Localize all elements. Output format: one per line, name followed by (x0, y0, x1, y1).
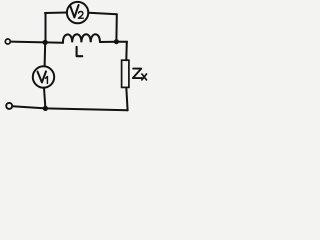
wire main horizontal right (100, 41, 127, 43)
terminal bottom-left (6, 103, 12, 109)
wire bottom rail (12, 106, 127, 110)
wire V1 branch lower (44, 88, 45, 109)
wire V2 loop right vertical (115, 14, 117, 42)
wire V2 loop left vertical (45, 13, 47, 42)
voltmeter V1 (33, 66, 54, 87)
label Zx subscript (142, 74, 147, 80)
label L (77, 47, 83, 56)
node junction B (114, 39, 119, 44)
inductor L (63, 34, 100, 43)
terminal top-left (5, 39, 10, 44)
label V2 (70, 5, 79, 17)
wire Zx branch down to box (125, 42, 128, 60)
label Zx (133, 69, 142, 79)
wire Zx box to bottom rail (126, 88, 127, 111)
wire top rail left (45, 12, 67, 15)
node junction A (43, 40, 48, 45)
wire top rail right (89, 13, 117, 14)
label V1 (38, 71, 47, 82)
impedance Zx box (122, 60, 129, 87)
voltmeter V2 (67, 2, 88, 23)
wire V1 branch upper (44, 42, 47, 66)
wire main horizontal left (11, 42, 63, 43)
node junction C (43, 106, 48, 111)
